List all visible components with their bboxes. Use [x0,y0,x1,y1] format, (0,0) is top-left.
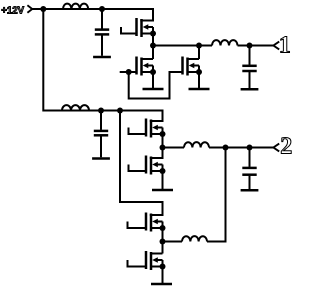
svg-text:1: 1 [279,32,291,58]
svg-text:+12V: +12V [1,5,24,16]
svg-text:2: 2 [280,134,292,160]
